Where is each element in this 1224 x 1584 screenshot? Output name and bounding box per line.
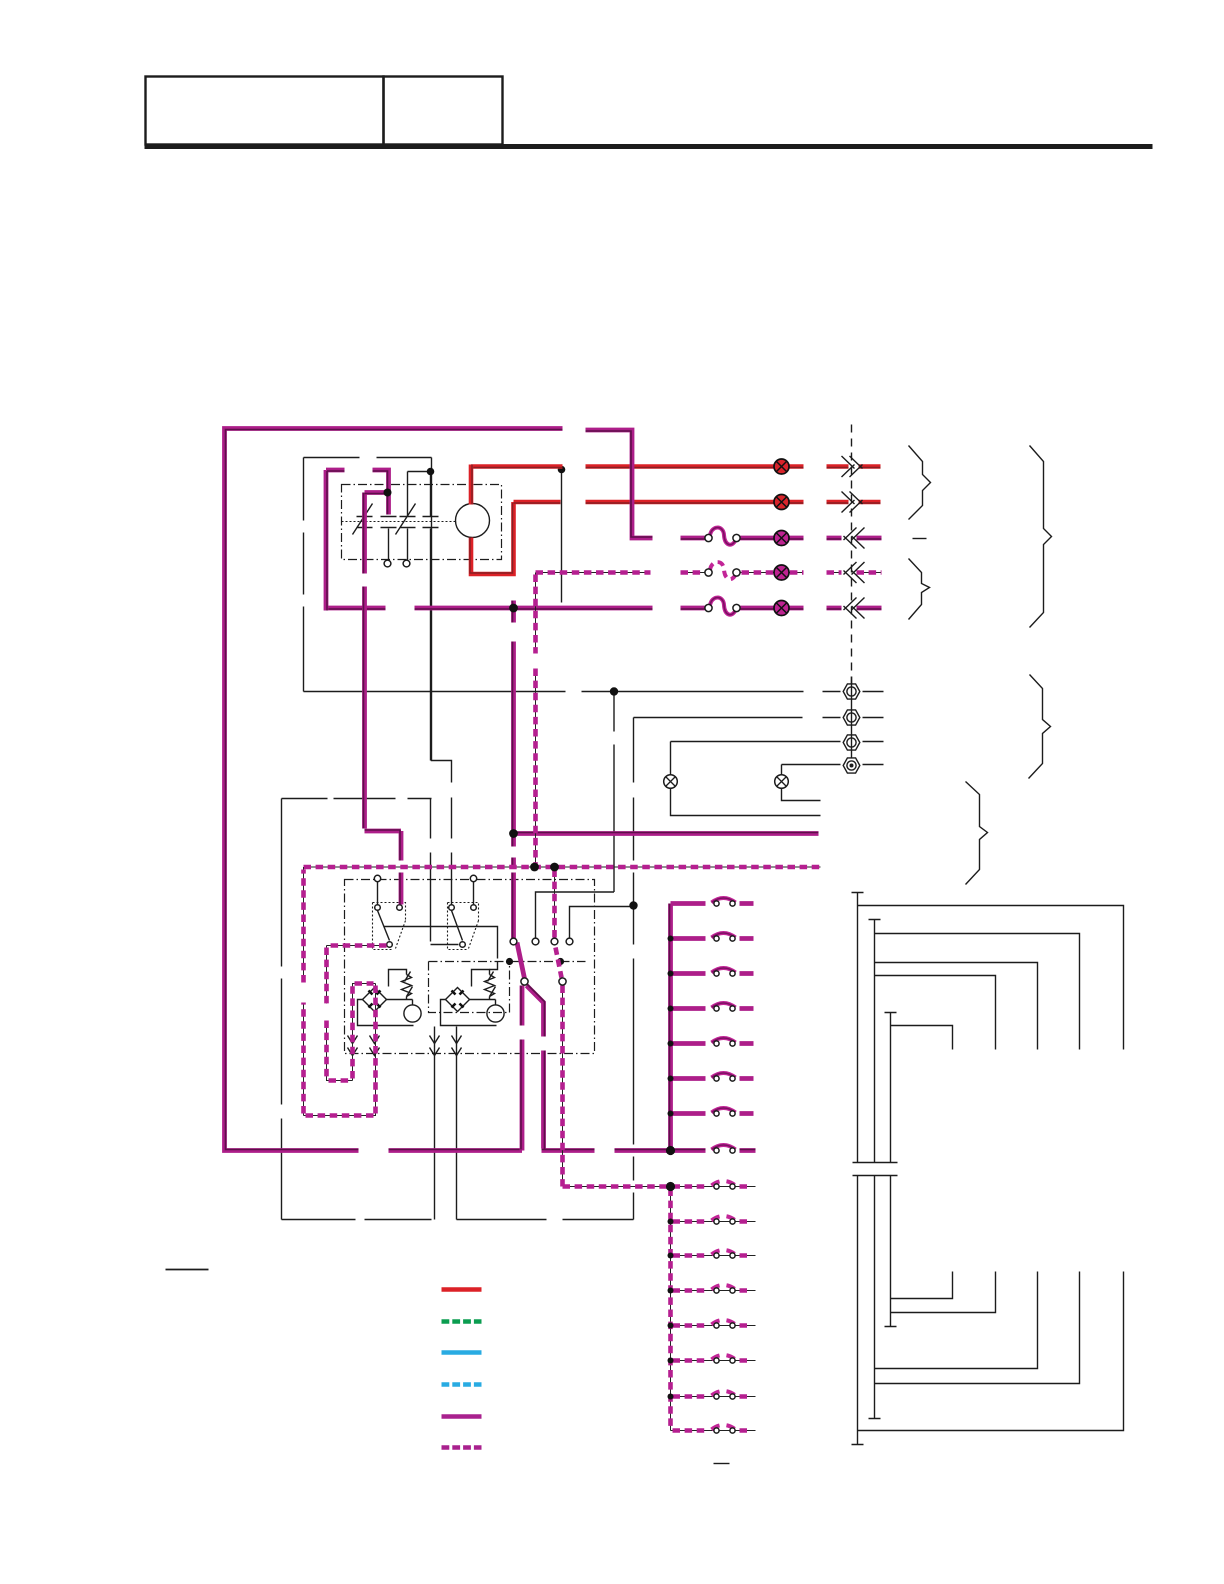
wire: comb row f3 <box>671 971 754 976</box>
wire: row 3 lamp branch <box>681 536 882 541</box>
lamp L1 (red row1) <box>774 459 789 474</box>
junction: dot on red feed <box>558 466 566 474</box>
wire: dashed drop x535 to bus <box>535 573 537 868</box>
lamp E1 (white) <box>664 775 678 789</box>
fuse links lower dashed comb <box>712 1181 736 1433</box>
junction: dot bus/comb <box>666 1146 675 1155</box>
legend: blue dashed <box>442 1382 482 1387</box>
wire: red headlamp row 2 with motor return <box>471 502 881 574</box>
wire: washer cap branch A <box>326 470 389 611</box>
wire: nested bracket b3 <box>875 1272 1038 1369</box>
fuse f6 <box>712 1073 736 1078</box>
junction: dot cap branch <box>384 489 392 497</box>
legend: green dashed <box>442 1319 482 1324</box>
fuse f2 <box>712 933 736 938</box>
wire: switch output right branch <box>527 986 756 1151</box>
wire: ground line 1 to hex G1 <box>304 691 884 693</box>
wire: cap3 lower stem to pin <box>407 529 409 560</box>
title block box 2 <box>384 77 503 145</box>
wire: ground line 2 to hex G2 <box>634 717 884 719</box>
capacitor C4 <box>423 517 439 528</box>
governor module2 resistor <box>485 972 496 997</box>
brace: hex ground group <box>1029 675 1051 779</box>
component box B (right tall thin box) <box>457 1219 634 1221</box>
connector harness V2 <box>869 920 881 1419</box>
wire: red headlamp row 1 <box>471 464 881 469</box>
tick: lower-left dash mark <box>166 1269 209 1271</box>
wire: nested bracket b2 <box>875 1272 1080 1384</box>
wire: switch output left branch to bus <box>520 986 525 1151</box>
tick: row3 dash mark <box>913 538 927 540</box>
legend: blue solid <box>442 1350 482 1355</box>
connector harness V1 (left vertical with end bars) <box>852 893 898 1445</box>
wire: feed segment to row3 drop <box>586 430 653 538</box>
junction: dot ground line1 x613 <box>610 687 618 695</box>
wire: nested bracket h3 <box>875 963 1038 1050</box>
brace: headlamp rows 1-2 <box>909 446 931 520</box>
ground hex G1 <box>843 684 860 699</box>
wire: switch feeder x513 <box>511 601 516 939</box>
wire: washer-motor unit outline (upper thin black box) <box>304 458 452 905</box>
wire: dashed relay circuit K1 <box>304 867 387 1116</box>
relay RL2 pins <box>449 905 455 911</box>
wire: lamp E2 drop and ground run <box>782 765 821 801</box>
legend: magenta solid <box>442 1414 482 1419</box>
wire: cap4 lower stem long drop <box>431 529 459 945</box>
title block box 1 <box>146 77 384 145</box>
fuse f4 <box>712 1003 736 1008</box>
wire: dashed comb row g4 <box>671 1290 756 1292</box>
pin: relay box top edge right <box>470 875 476 881</box>
capacitor C1 (slashed) <box>353 504 373 535</box>
wire: dashed row 4 lamp branch <box>536 572 882 574</box>
connector chevrons row1 (right) <box>842 456 863 477</box>
connector chevrons row3 (left) <box>844 528 865 549</box>
wire: comb row f5 <box>671 1041 754 1046</box>
ground hex G3 <box>843 735 860 750</box>
junction: dot feeder/y833 <box>509 829 518 838</box>
wire: module2 black leg 2 <box>456 1027 458 1220</box>
wire: top pin drops <box>378 882 474 905</box>
wire: dashed bus to switch pin x554 <box>554 867 556 939</box>
dashed body line at connector column <box>851 425 853 685</box>
wire: module2 black leg 1 <box>434 1027 436 1220</box>
header rule <box>145 144 1153 149</box>
governor inner dash-dot rail <box>429 961 586 963</box>
junction: dot dashed bus x535 <box>530 863 539 872</box>
wire: nested bracket b4 <box>891 1272 996 1313</box>
connector chevrons row4 (left) <box>844 562 865 583</box>
wire: lamp E1 drop and ground run <box>671 742 821 816</box>
wire: dashed comb row g2 <box>671 1221 756 1223</box>
wire: row 5 lamp branch <box>326 606 882 611</box>
brace: lamp group <box>966 782 988 885</box>
pin: cap2 <box>384 560 391 567</box>
wire: comb row f4 <box>671 1006 754 1011</box>
wire: dashed switch output to lower comb <box>563 986 670 1187</box>
lamp L4 (magenta row4) <box>774 565 789 580</box>
breaker S5 (row5 squiggle) <box>710 598 736 615</box>
fuse f3 <box>712 968 736 973</box>
breaker S3 (row3 squiggle) <box>710 528 736 545</box>
wire: nested bracket h4 <box>875 976 996 1050</box>
wire: cap3 stem up and tie bar y471 <box>408 472 431 517</box>
wire: dashed comb row g8 <box>671 1430 756 1432</box>
junction: comb dots <box>668 936 674 1117</box>
legend: magenta dashed <box>442 1445 482 1450</box>
switch pins row <box>510 938 517 945</box>
wire: comb row f2 <box>671 936 754 941</box>
motor M1 (washer motor circle) <box>456 504 490 538</box>
governor module1 wiring <box>358 970 414 1026</box>
wire: x633 riser hex2 to box B corner <box>633 718 635 1220</box>
connector chevrons row2 (right) <box>842 492 863 513</box>
wire: main hot feed left loop (top + left side + bottom bus left) <box>225 429 563 1151</box>
wire: accessory run y833 <box>514 831 819 836</box>
wire: nested bracket b5 <box>891 1272 953 1299</box>
relay RL1 pins <box>375 905 381 911</box>
relay box outline (dash-dot) <box>345 880 595 1054</box>
fuse g4 <box>712 1285 736 1290</box>
wire: dashed comb row g6 <box>671 1360 756 1362</box>
governor module1 motor <box>404 1005 421 1022</box>
brace: large right rows 1-5 <box>1030 446 1052 628</box>
wire: relay link rail to governor <box>384 927 498 970</box>
junction: dot x633 riser <box>629 901 637 909</box>
wire: nested bracket h2 <box>875 934 1080 1050</box>
wire: dashed comb row g5 <box>671 1325 756 1327</box>
switch blade solid <box>517 943 525 979</box>
brace: rows 4-5 <box>909 559 930 620</box>
wire: red motor feed drop <box>469 465 474 505</box>
connector harness V3 <box>885 1013 897 1327</box>
wire: stub from red feed down <box>561 471 563 603</box>
fuse f8 on bus <box>712 1145 736 1150</box>
governor module2 motor <box>487 1005 504 1022</box>
governor module1 resistor <box>402 972 413 997</box>
dotted sense line through caps <box>342 521 456 523</box>
governor module2 dash-dot box <box>429 962 510 1013</box>
ground screw column line <box>851 677 853 758</box>
relay RL2 dotted box <box>448 903 479 950</box>
wire: dashed comb row g3 <box>671 1255 756 1257</box>
fuse g3 <box>712 1250 736 1255</box>
fuse links upper comb <box>712 898 736 1153</box>
relay RL2 arm <box>452 911 463 941</box>
wire: nested bracket h5 <box>891 1026 953 1050</box>
governor module2 bridge D2 <box>446 988 470 1012</box>
capacitor C2 <box>381 517 397 528</box>
governor module1 bridge D1 <box>363 988 387 1012</box>
wire: cap2 lower stem to pin <box>388 529 390 560</box>
pin: relay box top edge left <box>374 875 380 881</box>
lamp L5 (magenta row5) <box>774 601 789 616</box>
fuse f5 <box>712 1038 736 1043</box>
tick: bottom comb dash mark <box>714 1463 730 1465</box>
wire: washer cap branch B through C1 down to relay RL1 <box>365 493 402 905</box>
wire: dashed lower comb riser <box>670 1187 672 1431</box>
lamp L2 (red row2) <box>774 495 789 510</box>
fuse g7 <box>712 1391 736 1396</box>
wire: ground line 3 to hex G3 <box>671 741 884 743</box>
governor module2 diodes <box>452 991 464 1008</box>
wire: fuse comb riser <box>668 904 673 1151</box>
breaker S4 (row4 squiggle dashed) <box>710 562 736 579</box>
component box A (left tall thin box) <box>282 799 432 1220</box>
fuse f7 <box>712 1108 736 1113</box>
relay RL1 dotted box <box>373 903 406 950</box>
junction: dot tie bar <box>427 468 435 476</box>
fuse g5 <box>712 1320 736 1325</box>
ground hex G2 <box>843 710 860 725</box>
wire: nested bracket h1 <box>858 906 1124 1050</box>
fuse f1 <box>712 898 736 903</box>
capacitor C3 (slashed) <box>396 504 416 535</box>
pin: cap3 <box>403 560 410 567</box>
wire: dashed tail bus y867 <box>304 866 821 868</box>
fuse g6 <box>712 1355 736 1360</box>
fuse g1 <box>712 1181 736 1186</box>
ground hex G4 <box>843 758 860 773</box>
comb row cores <box>671 905 754 1115</box>
junction: dot on inner rail right <box>506 958 513 965</box>
switch blade dashed <box>556 948 562 978</box>
junction: dot dashed bus/comb <box>666 1182 675 1191</box>
wire: dashed comb row g7 <box>671 1396 756 1398</box>
junction: dot row5/feeder <box>509 604 518 613</box>
junction: dot dashed bus x554 <box>550 863 559 872</box>
wire: comb row f7 <box>671 1111 754 1116</box>
fuse g8 <box>712 1425 736 1430</box>
switch blade pivots <box>521 978 528 985</box>
wire: switch contact to x633 riser <box>570 907 634 939</box>
junction: dashed comb dots <box>668 1219 674 1400</box>
lamp L3 (magenta row3) <box>774 531 789 546</box>
wire: comb row f1 <box>671 901 754 906</box>
arrows: leg outputs <box>348 1036 462 1056</box>
wire: switch contact to ground line 1 (via x613 riser) <box>536 692 615 939</box>
wire: ground line 4 to hex G4 <box>782 764 884 766</box>
junction: dot on inner rail left <box>557 958 564 965</box>
wire: nested bracket b1 <box>858 1272 1124 1431</box>
governor module2 wiring <box>441 970 497 1026</box>
wire: comb row f6 <box>671 1076 754 1081</box>
lamp E2 (white) <box>775 775 789 789</box>
connector chevrons row5 (left) <box>844 598 865 619</box>
relay RL1 arm <box>378 911 390 941</box>
governor module1 diodes <box>369 991 381 1008</box>
washer unit outline (dash-dot around caps+motor) <box>342 485 502 560</box>
wire: dashed comb row g1 <box>671 1186 756 1188</box>
fuse g2 <box>712 1216 736 1221</box>
legend: red solid <box>442 1287 482 1292</box>
